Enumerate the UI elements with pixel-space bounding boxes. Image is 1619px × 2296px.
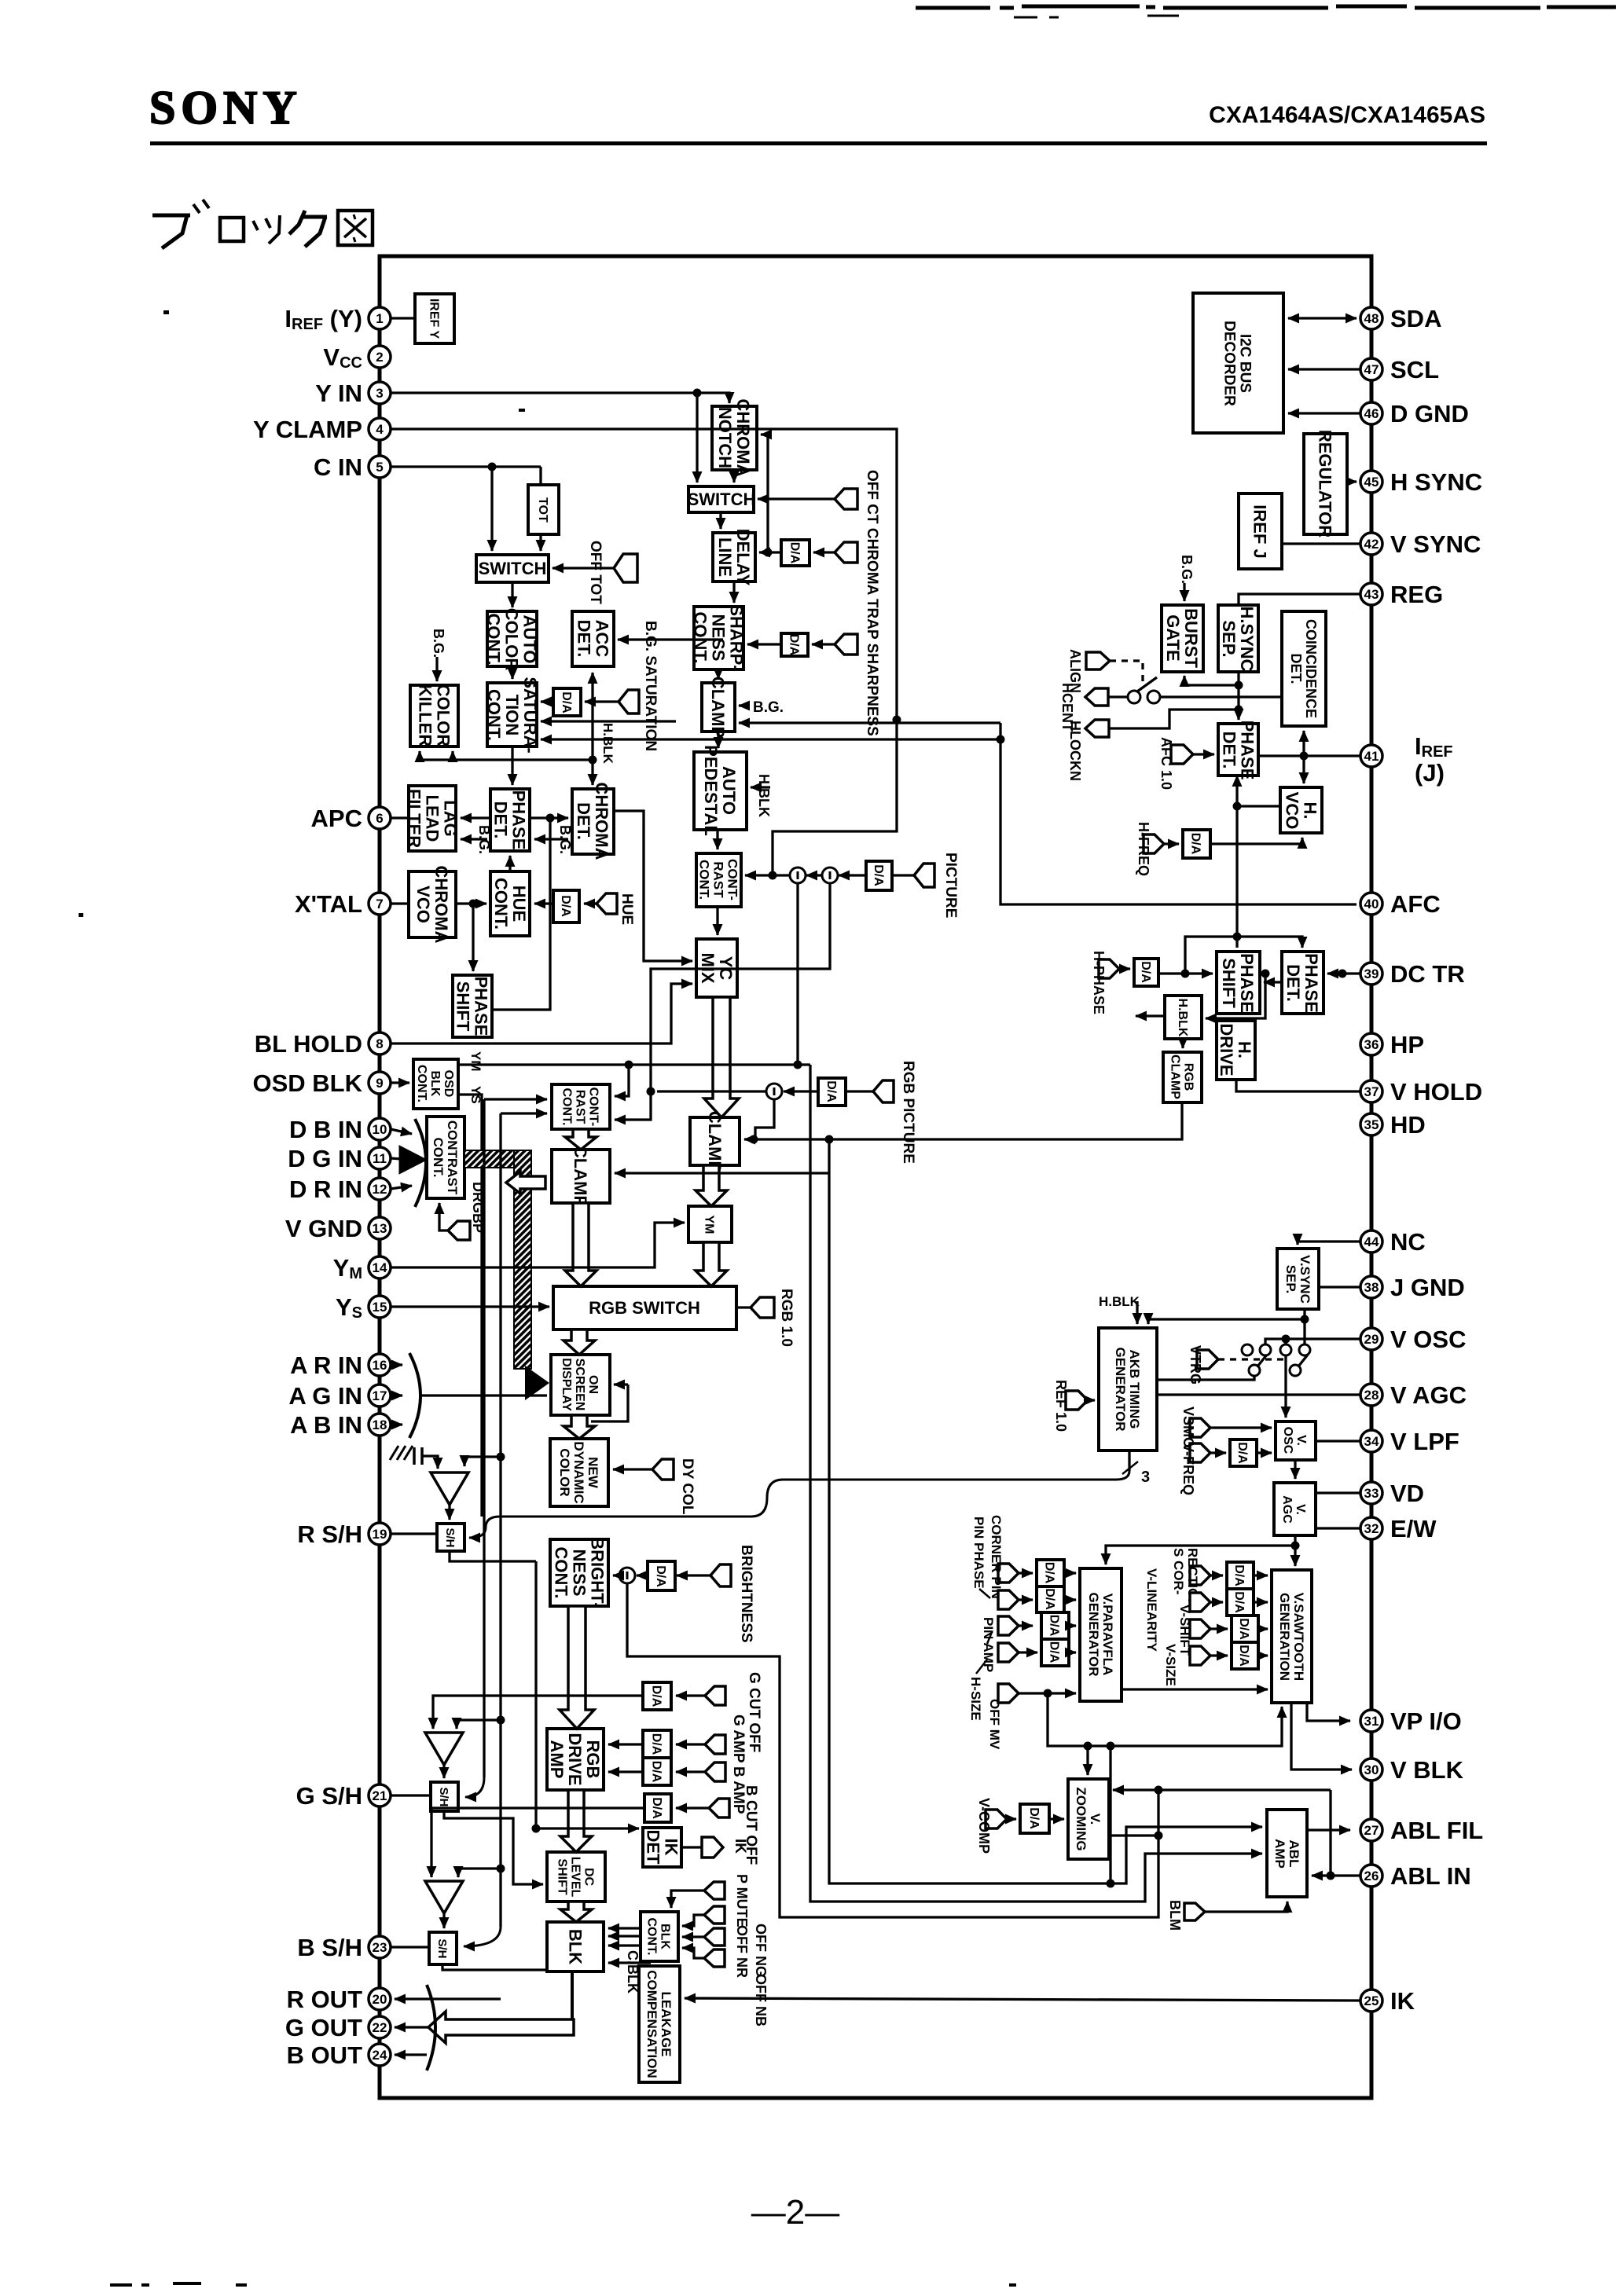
PHASE SHIFT block (chroma) <box>453 975 492 1037</box>
svg-text:—2—: —2— <box>751 2193 839 2232</box>
svg-text:D GND: D GND <box>1390 400 1469 427</box>
trunk x1055 down <box>829 1173 1262 1888</box>
svg-text:D/A: D/A <box>1048 1641 1061 1663</box>
wire pin1 to IREF Y <box>391 317 415 319</box>
IREF J block <box>1239 493 1282 569</box>
svg-text:H.BLK: H.BLK <box>756 774 772 817</box>
svg-text:X'TAL: X'TAL <box>295 890 362 918</box>
wire D/A to H VCO <box>1210 838 1302 844</box>
wire YM line <box>458 1061 810 1069</box>
wire R OUT arrow <box>395 1997 501 2000</box>
svg-text:CONT.: CONT. <box>484 614 504 666</box>
svg-text:COLOR: COLOR <box>557 1448 572 1496</box>
svg-text:DRIVE: DRIVE <box>1217 1023 1236 1076</box>
label B.G. burst gate <box>1179 555 1195 601</box>
flag V-LINEARITY <box>1144 1568 1223 1652</box>
wire CLAMP2 input <box>615 1139 829 1173</box>
flag HCENT <box>1059 683 1128 732</box>
wire YS line <box>458 1095 482 1517</box>
flag CHROMA TRAP <box>813 542 857 563</box>
CHROMA VCO block <box>409 866 456 944</box>
svg-text:16: 16 <box>373 1358 387 1373</box>
H.VCO block <box>1280 787 1322 833</box>
wire to V ZOOMING top <box>1086 1746 1089 1775</box>
svg-text:CHROMA: CHROMA <box>733 399 753 477</box>
svg-text:39: 39 <box>1364 966 1379 981</box>
svg-text:G CUT OFF: G CUT OFF <box>746 1672 762 1752</box>
CONTRAST CONT block (main) <box>696 853 741 907</box>
svg-text:28: 28 <box>1364 1388 1379 1403</box>
svg-text:VCO: VCO <box>1283 792 1302 830</box>
svg-text:37: 37 <box>1364 1084 1379 1099</box>
H.SYNC SEP block <box>1218 605 1258 672</box>
wire VZOOM output <box>1109 1832 1163 1840</box>
pin 23 B S/H <box>297 1934 391 1961</box>
pin 29 V OSC <box>1360 1326 1466 1353</box>
svg-text:22: 22 <box>373 2020 387 2035</box>
pin 14 YM <box>333 1254 391 1282</box>
SWITCH block (Y path) <box>688 486 756 512</box>
svg-text:YM: YM <box>703 1216 716 1234</box>
wire RGB CLAMP to CLAMP <box>744 1102 1182 1144</box>
svg-text:46: 46 <box>1364 406 1379 421</box>
SATURATION CONT block <box>484 677 540 753</box>
svg-text:PHASE: PHASE <box>509 790 529 850</box>
wire auto pedestal to contrast <box>716 830 718 849</box>
wire RGB OUT bracket <box>427 1985 435 2070</box>
D/A paravfla 3 <box>1041 1612 1069 1639</box>
svg-text:43: 43 <box>1364 587 1379 602</box>
attenuator circle RGB picture <box>766 1084 782 1099</box>
wire coincidence - H VCO riser <box>1302 731 1305 783</box>
svg-text:NEW: NEW <box>586 1457 600 1489</box>
wire D/A VFREQ to V OSC <box>1257 1451 1272 1454</box>
svg-text:OSC: OSC <box>1281 1427 1294 1454</box>
D/A sawtooth 4 <box>1232 1642 1258 1669</box>
label H.BLK at auto pedestal <box>751 774 772 817</box>
svg-text:SHIFT: SHIFT <box>556 1858 569 1894</box>
wire D/A to hue cont <box>534 902 553 904</box>
svg-text:B.G.: B.G. <box>753 699 784 716</box>
pin 38 J GND <box>1360 1274 1465 1301</box>
white bus arrow from OSD clamp <box>506 1172 545 1194</box>
svg-text:Y IN: Y IN <box>315 380 362 407</box>
svg-text:D/A: D/A <box>1139 961 1152 983</box>
label B.G. color killer <box>431 629 446 681</box>
wire ACC DET to chroma det riser <box>591 673 593 785</box>
svg-text:CHROMA: CHROMA <box>592 783 611 860</box>
svg-text:SCREEN: SCREEN <box>573 1359 586 1411</box>
AKB TIMING GENERATOR block <box>1099 1328 1157 1451</box>
wire B cutoff to triangle <box>431 1808 644 1877</box>
bracket D RGB IN <box>415 1119 426 1207</box>
svg-text:DYNAMIC: DYNAMIC <box>571 1441 586 1503</box>
svg-text:S/H: S/H <box>443 1528 457 1547</box>
bus arrow BLK output to RGB OUT pins <box>428 1971 574 2043</box>
wire DC TR <box>1327 970 1360 978</box>
svg-text:21: 21 <box>373 1788 387 1803</box>
svg-text:V AGC: V AGC <box>1390 1381 1467 1409</box>
bus arrow ON SCREEN DISPLAY to NEW DYNAMIC COLOR <box>564 1415 595 1439</box>
wire phase det to chroma det <box>530 814 568 823</box>
AUTO COLOR CONT block <box>484 608 540 671</box>
svg-text:BLK: BLK <box>659 1924 672 1949</box>
svg-text:IREF J: IREF J <box>1250 504 1270 558</box>
pin 13 V GND <box>285 1215 391 1242</box>
wire paravfla bottom drop <box>1109 1746 1111 1883</box>
pin 44 NC <box>1360 1228 1426 1256</box>
svg-text:V-LINEARITY: V-LINEARITY <box>1144 1568 1159 1652</box>
flag OFF MV <box>987 1684 1076 1750</box>
COLOR KILLER block <box>410 684 458 747</box>
svg-text:V SYNC: V SYNC <box>1390 530 1481 558</box>
svg-text:PHASE: PHASE <box>1301 953 1321 1013</box>
svg-text:LAG: LAG <box>441 800 461 836</box>
flag S CORRECTION <box>1171 1548 1223 1608</box>
svg-text:RGB SWITCH: RGB SWITCH <box>589 1298 700 1318</box>
svg-text:ON: ON <box>586 1375 600 1394</box>
flag OFF TOT <box>553 541 637 604</box>
svg-text:DET.: DET. <box>491 801 511 839</box>
svg-text:CORNER PIN: CORNER PIN <box>989 1515 1004 1599</box>
svg-text:SEP.: SEP. <box>1219 620 1239 657</box>
wire AKB to V AGC pin <box>1157 1393 1360 1396</box>
wire OSD contrast left inputs A <box>484 1098 547 1100</box>
page title (block diagram, Japanese) <box>152 200 373 248</box>
OSD BLK CONT block <box>413 1059 458 1109</box>
svg-text:DET: DET <box>644 1830 663 1865</box>
wire Y IN branch to switch <box>696 393 698 482</box>
svg-text:GENERATION: GENERATION <box>1277 1593 1292 1681</box>
svg-text:34: 34 <box>1364 1434 1379 1449</box>
svg-text:REGULATOR: REGULATOR <box>1316 430 1335 537</box>
svg-text:V.SAWTOOTH: V.SAWTOOTH <box>1291 1593 1306 1681</box>
svg-text:D/A: D/A <box>650 1761 663 1783</box>
IREF Y block <box>415 294 454 343</box>
wire AFC riser <box>1000 723 1357 904</box>
wire paravfla to sawtooth <box>1122 1688 1268 1690</box>
wire pin41 IREF J <box>1258 752 1360 761</box>
svg-text:V-COMP: V-COMP <box>976 1798 992 1854</box>
svg-text:SCL: SCL <box>1390 356 1439 383</box>
svg-text:OFF NR: OFF NR <box>734 1925 750 1978</box>
svg-text:B S/H: B S/H <box>297 1934 362 1961</box>
svg-text:REG: REG <box>1390 581 1443 608</box>
wire S/H G output <box>444 1811 543 1884</box>
pin 45 H SYNC <box>1360 468 1482 496</box>
svg-text:7: 7 <box>376 897 383 911</box>
S/H block (B) <box>429 1932 457 1964</box>
wire sharpness D/A to cont <box>747 643 781 645</box>
pin 2 VCC <box>323 343 391 372</box>
svg-text:V.: V. <box>1088 1814 1103 1825</box>
PHASE DET block (chroma) <box>490 789 530 851</box>
svg-text:IK: IK <box>662 1839 681 1856</box>
svg-text:DC: DC <box>582 1868 596 1887</box>
wire ARGB IN bus <box>391 1353 547 1438</box>
svg-text:OFF MV: OFF MV <box>987 1699 1002 1750</box>
SONY logo <box>149 82 303 134</box>
wire contrast to yc mix <box>716 907 718 935</box>
svg-text:12: 12 <box>373 1182 387 1197</box>
svg-text:OSD: OSD <box>442 1070 455 1098</box>
svg-text:C IN: C IN <box>314 453 362 481</box>
wire BL HOLD to YC MIX <box>391 984 692 1043</box>
pin 40 AFC <box>1360 890 1441 918</box>
svg-text:D/A: D/A <box>787 634 801 656</box>
CLAMP block (Y) <box>702 677 735 738</box>
D/A paravfla 1 <box>1037 1560 1064 1586</box>
svg-text:H.: H. <box>1235 1041 1254 1058</box>
pin 24 B OUT <box>287 2041 391 2069</box>
flag G AMP <box>676 1715 747 1763</box>
wire V OSC drop to block <box>1284 1356 1287 1418</box>
svg-text:DECORDER: DECORDER <box>1221 321 1238 406</box>
switch contacts V OSC <box>1242 1344 1310 1376</box>
svg-text:E/W: E/W <box>1390 1515 1437 1542</box>
BLK CONT block <box>641 1912 678 1961</box>
bus arrow YC MIX to CLAMP <box>704 997 739 1117</box>
svg-text:H.BLK: H.BLK <box>1176 999 1189 1037</box>
svg-text:35: 35 <box>1364 1117 1379 1132</box>
CONTRAST CONT block (OSD) <box>552 1084 610 1129</box>
wire YM to OSD contrast <box>615 1065 629 1096</box>
wire G OUT arrow <box>395 2026 431 2028</box>
wire SDA <box>1288 317 1357 319</box>
svg-text:10: 10 <box>373 1122 387 1137</box>
svg-text:HD: HD <box>1390 1111 1426 1139</box>
svg-text:SHIFT: SHIFT <box>453 981 473 1032</box>
svg-text:V.: V. <box>1294 1435 1308 1446</box>
svg-text:D/A: D/A <box>872 864 885 886</box>
svg-text:SWITCH: SWITCH <box>688 490 756 509</box>
svg-text:BRIGHT-: BRIGHT- <box>588 1537 608 1608</box>
pin 4 Y CLAMP <box>253 416 391 443</box>
D/A V-COMP <box>1020 1804 1049 1833</box>
svg-text:D/A: D/A <box>560 691 573 713</box>
D/A chroma trap <box>781 540 809 566</box>
switch lever <box>1137 677 1157 691</box>
svg-text:H.: H. <box>1301 802 1320 820</box>
svg-text:D/A: D/A <box>559 895 572 917</box>
RGB CLAMP block <box>1163 1052 1202 1102</box>
svg-text:B OUT: B OUT <box>287 2041 363 2069</box>
pin 27 ABL FIL <box>1360 1817 1483 1844</box>
svg-text:A B IN: A B IN <box>290 1411 362 1439</box>
branch to B buffer <box>458 1869 501 1877</box>
D/A paravfla 2 <box>1037 1586 1064 1612</box>
wire V OSC pin <box>1265 1335 1360 1345</box>
wire IK pin to LEAKAGE <box>685 1998 1360 2001</box>
wire ABL FIL <box>1307 1828 1350 1831</box>
wire D/A to saturation <box>541 700 553 702</box>
svg-text:SEP.: SEP. <box>1283 1265 1298 1294</box>
svg-text:RGB 1.0: RGB 1.0 <box>778 1289 795 1347</box>
svg-text:DRIVE: DRIVE <box>565 1733 585 1785</box>
svg-text:OFF NG: OFF NG <box>753 1924 769 1977</box>
flag P MUTE <box>671 1874 750 1927</box>
D/A G amp <box>643 1730 671 1758</box>
wire NC to V.SYNC SEP <box>1298 1242 1360 1245</box>
svg-text:IK: IK <box>1390 1987 1415 2015</box>
pin 31 VP I/O <box>1360 1707 1462 1735</box>
svg-text:AFC: AFC <box>1390 890 1441 918</box>
buffer triangle G <box>425 1733 463 1765</box>
flag VSMO <box>1180 1407 1272 1448</box>
svg-text:VCO: VCO <box>413 886 433 923</box>
wire X'TAL to chroma VCO <box>391 902 409 904</box>
svg-text:25: 25 <box>1364 1993 1379 2008</box>
flag V-SIZE <box>1163 1644 1228 1686</box>
svg-text:6: 6 <box>376 811 383 826</box>
flag V-FREQ <box>1180 1443 1226 1495</box>
wire B S/H pin <box>391 1946 429 1948</box>
svg-text:D/A: D/A <box>1232 1564 1246 1586</box>
flag OFF NB <box>682 1948 769 2026</box>
svg-text:PHASE: PHASE <box>1238 721 1257 780</box>
svg-text:IREF Y: IREF Y <box>428 299 441 339</box>
svg-text:CONT.: CONT. <box>484 689 504 741</box>
wire YM box input <box>391 1223 685 1267</box>
svg-text:14: 14 <box>373 1260 387 1275</box>
wire triangle to S/H G <box>442 1765 445 1778</box>
svg-text:CONT.: CONT. <box>645 1918 659 1956</box>
svg-text:20: 20 <box>373 1992 387 2007</box>
wire chroma trap feedback <box>761 435 768 552</box>
svg-text:17: 17 <box>373 1388 387 1403</box>
YM block <box>688 1206 732 1242</box>
wire hue cont to phase det <box>508 856 511 871</box>
wire OFF MV to zooming/sawtooth <box>1048 1693 1282 1751</box>
svg-text:D/A: D/A <box>1027 1807 1041 1829</box>
wire attenuator2 drop <box>615 883 830 1120</box>
COINCIDENCE DET block <box>1282 611 1326 726</box>
svg-text:SWITCH: SWITCH <box>479 559 547 578</box>
svg-text:DY COL: DY COL <box>679 1458 696 1515</box>
pin 41 IREF (J) <box>1360 732 1453 787</box>
wire clamp to auto pedestal <box>717 732 719 748</box>
trunk x1576 <box>1235 672 1243 720</box>
IC boundary box <box>380 256 1371 2098</box>
flag VTRG <box>1188 1345 1218 1385</box>
DELAY LINE block <box>713 529 755 586</box>
svg-text:AMP: AMP <box>1272 1839 1287 1869</box>
pin 46 D GND <box>1360 400 1469 427</box>
BLK block <box>547 1922 604 1971</box>
svg-text:DET.: DET. <box>1283 964 1303 1002</box>
svg-text:H.BLK: H.BLK <box>1099 1294 1140 1309</box>
pin 5 C IN <box>314 453 391 481</box>
wires BLK CONT to BLK <box>608 1928 641 1946</box>
svg-text:(J): (J) <box>1415 759 1445 787</box>
HUE CONT block <box>490 871 530 936</box>
svg-text:4: 4 <box>376 422 384 437</box>
wire sawtooth to VP I/O <box>1307 1703 1350 1721</box>
wire ABL IN <box>1312 1874 1360 1876</box>
svg-text:COLOR: COLOR <box>434 684 453 747</box>
pin 8 BL HOLD <box>255 1030 391 1058</box>
svg-text:8: 8 <box>376 1036 383 1051</box>
wire attenuator1 drop <box>796 883 798 1065</box>
wire burst gate branch <box>1184 676 1239 685</box>
svg-text:D/A: D/A <box>1043 1562 1056 1584</box>
svg-text:S COR-: S COR- <box>1171 1548 1186 1595</box>
wires paravfla DAs to generator <box>1064 1573 1076 1652</box>
wire D R IN arrow <box>391 1186 412 1189</box>
flag H-SIZE flag <box>968 1643 1037 1721</box>
svg-text:15: 15 <box>373 1300 387 1315</box>
svg-text:RGB: RGB <box>583 1740 603 1779</box>
svg-text:NC: NC <box>1390 1228 1426 1256</box>
flag PIN AMP <box>981 1616 1033 1672</box>
svg-text:36: 36 <box>1364 1037 1379 1052</box>
svg-text:BLK: BLK <box>566 1929 586 1964</box>
wire delay line to sharpness cont <box>732 581 735 603</box>
svg-text:PICTURE: PICTURE <box>942 853 959 918</box>
flag ALIGN <box>1067 649 1110 693</box>
label B.G. at clamp <box>739 699 784 716</box>
pin 34 V LPF <box>1360 1428 1459 1455</box>
svg-text:IK: IK <box>732 1839 748 1854</box>
wire switch to delay line <box>719 512 721 529</box>
svg-text:44: 44 <box>1364 1234 1379 1249</box>
svg-text:D/A: D/A <box>1048 1615 1061 1637</box>
wire DC TR to H.BLK <box>1206 970 1270 1019</box>
wire V AGC down <box>1291 1535 1300 1566</box>
wire Y CLAMP <box>391 429 901 880</box>
wire IREF J to V SYNC <box>1282 542 1360 545</box>
svg-text:BLM: BLM <box>1167 1900 1183 1931</box>
CONTRAST CONT block (D-RGB) <box>427 1117 464 1198</box>
wire AKB input line <box>1148 1319 1305 1324</box>
wire color killer inputs <box>420 751 597 765</box>
LAG LEAD FILTER block <box>405 786 461 851</box>
BURST GATE block <box>1162 605 1203 672</box>
pin 12 D R IN <box>289 1176 391 1203</box>
svg-text:CXA1464AS/CXA1465AS: CXA1464AS/CXA1465AS <box>1209 102 1485 128</box>
label H.BLK AKB <box>1099 1294 1140 1324</box>
flag OFF NG <box>682 1924 769 1977</box>
svg-text:LINE: LINE <box>715 537 735 577</box>
bus arrow DC LEVEL SHIFT to BLK <box>560 1902 592 1922</box>
svg-text:D/A: D/A <box>1237 1618 1250 1640</box>
wire EW junction to paravfla <box>1106 1546 1295 1564</box>
wires sawtooth DAs to generator <box>1254 1575 1268 1656</box>
D/A B cut off <box>644 1794 671 1822</box>
svg-text:VD: VD <box>1390 1480 1424 1507</box>
wire G cutoff to triangle <box>433 1696 643 1729</box>
wire D/A to delay line <box>759 548 781 557</box>
label B.G. at phase det <box>534 825 573 854</box>
wire VCO branch to phase shift <box>472 904 474 971</box>
pin 11 D G IN <box>288 1145 391 1172</box>
svg-text:BURST: BURST <box>1181 608 1201 668</box>
wire to H VCO left <box>1237 805 1280 807</box>
PHASE DET block (H) <box>1218 721 1258 780</box>
pin 18 A B IN <box>290 1411 391 1439</box>
dashed VTRG wire <box>1218 1358 1289 1360</box>
NEW DYNAMIC COLOR block <box>550 1439 608 1506</box>
svg-text:AKB TIMING: AKB TIMING <box>1127 1349 1142 1429</box>
svg-text:11: 11 <box>373 1151 387 1166</box>
svg-text:I2C BUS: I2C BUS <box>1237 334 1254 393</box>
wire REGULATOR to H SYNC <box>1347 480 1357 482</box>
buffer triangle B <box>425 1881 463 1913</box>
svg-text:38: 38 <box>1364 1280 1379 1295</box>
pin 43 REG <box>1360 581 1443 608</box>
svg-text:A R IN: A R IN <box>290 1352 362 1379</box>
pin 21 G S/H <box>296 1782 391 1810</box>
